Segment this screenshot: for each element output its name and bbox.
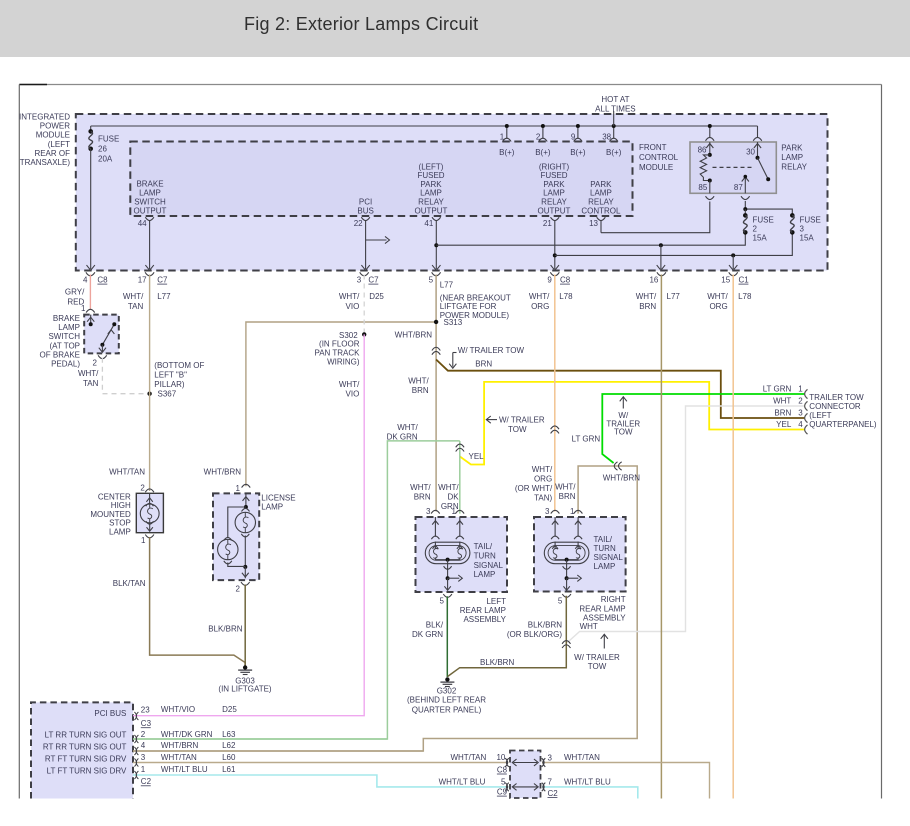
- svg-text:3: 3: [426, 507, 431, 516]
- svg-text:LAMP: LAMP: [590, 189, 612, 198]
- svg-text:WHT/BRN: WHT/BRN: [204, 468, 242, 477]
- svg-text:RELAY: RELAY: [541, 198, 567, 207]
- svg-text:WHT/TAN: WHT/TAN: [109, 468, 145, 477]
- svg-text:2: 2: [141, 730, 146, 739]
- svg-text:PARK: PARK: [590, 180, 612, 189]
- svg-text:WHT/: WHT/: [438, 483, 459, 492]
- svg-text:LAMP: LAMP: [420, 189, 442, 198]
- svg-text:87: 87: [734, 183, 743, 192]
- svg-text:HIGH: HIGH: [111, 501, 131, 510]
- svg-text:HOT AT: HOT AT: [601, 95, 629, 104]
- svg-text:3: 3: [798, 408, 803, 417]
- svg-text:5: 5: [440, 596, 445, 605]
- svg-text:PILLAR): PILLAR): [154, 380, 185, 389]
- svg-text:(LEFT: (LEFT: [48, 140, 70, 149]
- svg-text:RELAY: RELAY: [418, 198, 444, 207]
- svg-text:G302: G302: [437, 686, 457, 695]
- svg-text:SWITCH: SWITCH: [134, 197, 166, 206]
- svg-text:WHT/TAN: WHT/TAN: [450, 753, 486, 762]
- svg-text:QUARTER PANEL): QUARTER PANEL): [412, 705, 482, 714]
- svg-text:VIO: VIO: [346, 390, 360, 399]
- svg-text:BRN: BRN: [639, 302, 656, 311]
- svg-text:L62: L62: [222, 741, 236, 750]
- svg-text:WHT/LT BLU: WHT/LT BLU: [564, 777, 611, 786]
- svg-text:BLK/TAN: BLK/TAN: [113, 579, 146, 588]
- svg-text:ORG: ORG: [534, 474, 552, 483]
- svg-text:WHT/LT BLU: WHT/LT BLU: [161, 765, 208, 774]
- svg-text:C3: C3: [141, 719, 152, 728]
- svg-text:TAN: TAN: [128, 302, 144, 311]
- svg-text:PCI BUS: PCI BUS: [94, 709, 126, 718]
- svg-text:15A: 15A: [753, 234, 768, 243]
- svg-text:REAR OF: REAR OF: [34, 149, 70, 158]
- svg-text:FUSE: FUSE: [800, 216, 821, 225]
- svg-text:CONTROL: CONTROL: [639, 153, 679, 162]
- svg-text:22: 22: [354, 219, 363, 228]
- svg-text:1: 1: [141, 765, 146, 774]
- svg-text:FUSED: FUSED: [540, 171, 567, 180]
- svg-text:SWITCH: SWITCH: [48, 332, 80, 341]
- svg-text:L77: L77: [667, 292, 681, 301]
- svg-text:WHT/BRN: WHT/BRN: [603, 473, 641, 482]
- svg-text:C9: C9: [497, 788, 508, 797]
- svg-text:86: 86: [698, 146, 707, 155]
- svg-text:GRN: GRN: [441, 502, 459, 511]
- svg-text:2: 2: [93, 359, 98, 368]
- svg-text:WHT: WHT: [580, 622, 598, 631]
- svg-text:WIRING): WIRING): [327, 358, 360, 367]
- svg-text:PEDAL): PEDAL): [51, 360, 80, 369]
- svg-text:9: 9: [547, 276, 552, 285]
- svg-text:WHT/BRN: WHT/BRN: [161, 741, 199, 750]
- svg-text:LT FT TURN SIG DRV: LT FT TURN SIG DRV: [47, 766, 127, 775]
- svg-text:WHT/: WHT/: [555, 483, 576, 492]
- svg-text:W/ TRAILER: W/ TRAILER: [499, 416, 545, 425]
- svg-text:C2: C2: [141, 777, 152, 786]
- svg-text:CENTER: CENTER: [98, 493, 131, 502]
- svg-text:WHT/: WHT/: [78, 369, 99, 378]
- svg-text:BRN: BRN: [774, 408, 791, 417]
- svg-text:RIGHT: RIGHT: [601, 595, 626, 604]
- svg-text:16: 16: [649, 276, 658, 285]
- svg-text:MODULE: MODULE: [639, 163, 673, 172]
- svg-text:WHT: WHT: [773, 396, 791, 405]
- svg-text:RELAY: RELAY: [588, 198, 614, 207]
- svg-text:LT GRN: LT GRN: [763, 385, 792, 394]
- svg-text:REAR LAMP: REAR LAMP: [460, 606, 506, 615]
- svg-text:MOUNTED: MOUNTED: [90, 510, 131, 519]
- svg-text:DK GRN: DK GRN: [387, 432, 418, 441]
- svg-text:L60: L60: [222, 753, 236, 762]
- svg-text:YEL: YEL: [469, 452, 485, 461]
- svg-text:2: 2: [536, 133, 541, 142]
- svg-text:PARK: PARK: [543, 180, 565, 189]
- svg-text:9: 9: [571, 133, 576, 142]
- svg-text:B(+): B(+): [535, 148, 551, 157]
- svg-text:21: 21: [543, 219, 552, 228]
- svg-text:MODULE: MODULE: [36, 131, 70, 140]
- svg-text:BRN: BRN: [475, 359, 492, 368]
- svg-text:7: 7: [548, 777, 553, 786]
- svg-text:1: 1: [236, 484, 241, 493]
- svg-text:L78: L78: [559, 292, 573, 301]
- svg-text:C1: C1: [739, 276, 750, 285]
- svg-text:1: 1: [81, 304, 86, 313]
- svg-text:BRN: BRN: [414, 493, 431, 502]
- svg-text:RELAY: RELAY: [781, 163, 807, 172]
- svg-text:L77: L77: [157, 292, 171, 301]
- svg-text:1: 1: [452, 507, 457, 516]
- svg-text:C2: C2: [548, 789, 559, 798]
- svg-text:2: 2: [753, 225, 758, 234]
- svg-text:PARK: PARK: [420, 180, 442, 189]
- svg-text:LAMP: LAMP: [139, 188, 161, 197]
- svg-text:TRANSAXLE): TRANSAXLE): [20, 158, 71, 167]
- svg-text:WHT/: WHT/: [339, 292, 360, 301]
- svg-text:17: 17: [138, 276, 147, 285]
- svg-text:PARK: PARK: [781, 144, 803, 153]
- svg-text:LAMP: LAMP: [781, 153, 803, 162]
- svg-text:(AT TOP: (AT TOP: [49, 341, 80, 350]
- svg-text:26: 26: [98, 145, 107, 154]
- svg-text:15: 15: [721, 276, 730, 285]
- svg-text:TAN: TAN: [83, 379, 99, 388]
- svg-text:WHT/VIO: WHT/VIO: [161, 705, 195, 714]
- svg-text:LAMP: LAMP: [594, 562, 616, 571]
- svg-text:5: 5: [429, 276, 434, 285]
- svg-text:5: 5: [558, 596, 563, 605]
- svg-text:1: 1: [500, 133, 505, 142]
- svg-text:(BEHIND LEFT REAR: (BEHIND LEFT REAR: [407, 696, 486, 705]
- svg-text:PAN TRACK: PAN TRACK: [314, 349, 360, 358]
- svg-text:3: 3: [548, 754, 553, 763]
- svg-text:1: 1: [141, 536, 146, 545]
- svg-text:(OR WHT/: (OR WHT/: [515, 484, 553, 493]
- svg-text:(LEFT: (LEFT: [809, 411, 831, 420]
- svg-text:OF BRAKE: OF BRAKE: [40, 350, 80, 359]
- svg-text:D25: D25: [222, 705, 237, 714]
- svg-text:TOW: TOW: [588, 662, 607, 671]
- svg-text:C8: C8: [497, 765, 508, 774]
- svg-text:OUTPUT: OUTPUT: [415, 206, 448, 215]
- svg-text:1: 1: [570, 507, 575, 516]
- svg-text:ORG: ORG: [709, 302, 727, 311]
- svg-text:SIGNAL: SIGNAL: [474, 561, 504, 570]
- svg-text:DK GRN: DK GRN: [412, 630, 443, 639]
- svg-text:BRN: BRN: [412, 386, 429, 395]
- svg-text:FUSE: FUSE: [753, 216, 774, 225]
- svg-text:WHT/: WHT/: [408, 377, 429, 386]
- svg-text:ASSEMBLY: ASSEMBLY: [463, 615, 506, 624]
- svg-text:30: 30: [746, 148, 755, 157]
- svg-text:B(+): B(+): [570, 148, 586, 157]
- svg-text:WHT/TAN: WHT/TAN: [564, 753, 600, 762]
- svg-text:TRAILER TOW: TRAILER TOW: [809, 393, 864, 402]
- svg-text:WHT/: WHT/: [410, 483, 431, 492]
- svg-text:LAMP: LAMP: [474, 570, 496, 579]
- svg-text:L77: L77: [440, 281, 454, 290]
- svg-text:WHT/DK GRN: WHT/DK GRN: [161, 730, 213, 739]
- svg-text:W/ TRAILER: W/ TRAILER: [574, 653, 620, 662]
- svg-text:B(+): B(+): [606, 148, 622, 157]
- svg-text:2: 2: [236, 585, 241, 594]
- svg-text:FUSE: FUSE: [98, 135, 119, 144]
- svg-text:LAMP: LAMP: [58, 323, 80, 332]
- svg-text:WHT/: WHT/: [397, 423, 418, 432]
- svg-text:RT RR TURN SIG OUT: RT RR TURN SIG OUT: [43, 742, 127, 751]
- svg-text:BLK/: BLK/: [426, 621, 444, 630]
- svg-text:W/ TRAILER TOW: W/ TRAILER TOW: [458, 346, 525, 355]
- svg-text:GRY/: GRY/: [65, 288, 85, 297]
- svg-text:TURN: TURN: [474, 551, 496, 560]
- svg-text:WHT/TAN: WHT/TAN: [161, 753, 197, 762]
- svg-text:CONTROL: CONTROL: [581, 206, 621, 215]
- svg-text:LIFTGATE FOR: LIFTGATE FOR: [440, 302, 497, 311]
- svg-text:5: 5: [501, 777, 506, 786]
- svg-text:TAIL/: TAIL/: [594, 535, 613, 544]
- svg-text:BUS: BUS: [357, 206, 373, 215]
- svg-text:BLK/BRN: BLK/BRN: [208, 625, 242, 634]
- svg-text:44: 44: [138, 219, 147, 228]
- svg-text:BRN: BRN: [559, 492, 576, 501]
- svg-text:STOP: STOP: [109, 519, 131, 528]
- svg-text:VIO: VIO: [346, 302, 360, 311]
- svg-text:15A: 15A: [800, 234, 815, 243]
- svg-text:OUTPUT: OUTPUT: [134, 206, 167, 215]
- svg-text:1: 1: [798, 385, 803, 394]
- svg-text:BRAKE: BRAKE: [136, 179, 163, 188]
- svg-text:ORG: ORG: [531, 302, 549, 311]
- svg-text:20A: 20A: [98, 155, 113, 164]
- svg-text:LAMP: LAMP: [261, 503, 283, 512]
- svg-text:(IN LIFTGATE): (IN LIFTGATE): [218, 684, 272, 693]
- svg-text:LEFT: LEFT: [486, 597, 506, 606]
- svg-text:WHT/: WHT/: [339, 380, 360, 389]
- svg-text:REAR LAMP: REAR LAMP: [579, 604, 625, 613]
- svg-text:LAMP: LAMP: [543, 189, 565, 198]
- svg-text:OUTPUT: OUTPUT: [538, 206, 571, 215]
- svg-text:38: 38: [602, 133, 611, 142]
- svg-text:C7: C7: [368, 276, 379, 285]
- svg-text:SIGNAL: SIGNAL: [594, 553, 624, 562]
- svg-text:23: 23: [141, 706, 150, 715]
- svg-text:3: 3: [800, 225, 805, 234]
- svg-text:(BOTTOM OF: (BOTTOM OF: [154, 361, 204, 370]
- svg-text:D25: D25: [369, 292, 384, 301]
- svg-text:4: 4: [83, 276, 88, 285]
- svg-text:POWER: POWER: [40, 122, 70, 131]
- svg-text:TOW: TOW: [508, 425, 527, 434]
- svg-text:(OR BLK/ORG): (OR BLK/ORG): [507, 630, 562, 639]
- svg-text:BRAKE: BRAKE: [53, 314, 80, 323]
- svg-text:LICENSE: LICENSE: [261, 494, 295, 503]
- svg-text:2: 2: [798, 396, 803, 405]
- svg-text:85: 85: [698, 183, 707, 192]
- svg-text:BLK/BRN: BLK/BRN: [528, 621, 562, 630]
- svg-text:41: 41: [424, 219, 433, 228]
- svg-text:WHT/: WHT/: [532, 465, 553, 474]
- svg-text:4: 4: [798, 420, 803, 429]
- svg-text:LAMP: LAMP: [109, 527, 131, 536]
- svg-text:WHT/: WHT/: [123, 292, 144, 301]
- svg-text:C8: C8: [97, 276, 108, 285]
- svg-text:WHT/: WHT/: [529, 292, 550, 301]
- svg-text:INTEGRATED: INTEGRATED: [19, 113, 70, 122]
- svg-text:CONNECTOR: CONNECTOR: [809, 402, 861, 411]
- svg-text:(IN FLOOR: (IN FLOOR: [319, 340, 360, 349]
- svg-text:TURN: TURN: [594, 544, 616, 553]
- svg-text:S367: S367: [158, 390, 177, 399]
- svg-text:S313: S313: [444, 318, 463, 327]
- svg-text:3: 3: [545, 507, 550, 516]
- svg-text:TAN): TAN): [534, 493, 552, 502]
- svg-text:FUSED: FUSED: [417, 171, 444, 180]
- svg-text:C8: C8: [560, 276, 571, 285]
- svg-text:RT FT TURN SIG DRV: RT FT TURN SIG DRV: [45, 754, 127, 763]
- svg-text:YEL: YEL: [776, 420, 792, 429]
- svg-text:10: 10: [496, 753, 505, 762]
- svg-text:LT GRN: LT GRN: [572, 434, 601, 443]
- svg-text:TAIL/: TAIL/: [474, 542, 493, 551]
- svg-text:(LEFT): (LEFT): [419, 162, 444, 171]
- svg-text:WHT/: WHT/: [707, 292, 728, 301]
- svg-text:2: 2: [140, 483, 145, 492]
- svg-text:WHT/: WHT/: [636, 292, 657, 301]
- svg-text:DK: DK: [447, 493, 459, 502]
- svg-text:L63: L63: [222, 730, 236, 739]
- svg-text:13: 13: [589, 219, 598, 228]
- svg-text:TOW: TOW: [614, 428, 633, 437]
- svg-text:Fig 2: Exterior Lamps Circuit: Fig 2: Exterior Lamps Circuit: [244, 14, 478, 34]
- svg-text:L61: L61: [222, 765, 236, 774]
- svg-text:WHT/LT BLU: WHT/LT BLU: [439, 777, 486, 786]
- svg-text:QUARTERPANEL): QUARTERPANEL): [809, 420, 877, 429]
- svg-text:PCI: PCI: [359, 197, 372, 206]
- svg-text:ALL TIMES: ALL TIMES: [595, 104, 635, 113]
- svg-text:BLK/BRN: BLK/BRN: [480, 658, 514, 667]
- svg-text:(RIGHT): (RIGHT): [539, 162, 570, 171]
- svg-text:4: 4: [141, 741, 146, 750]
- svg-text:WHT/BRN: WHT/BRN: [395, 331, 433, 340]
- svg-text:FRONT: FRONT: [639, 143, 667, 152]
- svg-text:LEFT "B": LEFT "B": [154, 371, 187, 380]
- svg-text:L78: L78: [738, 292, 752, 301]
- svg-text:B(+): B(+): [499, 148, 515, 157]
- svg-text:LT RR TURN SIG OUT: LT RR TURN SIG OUT: [45, 730, 127, 739]
- svg-text:3: 3: [357, 276, 362, 285]
- svg-text:3: 3: [141, 753, 146, 762]
- svg-text:C7: C7: [157, 276, 168, 285]
